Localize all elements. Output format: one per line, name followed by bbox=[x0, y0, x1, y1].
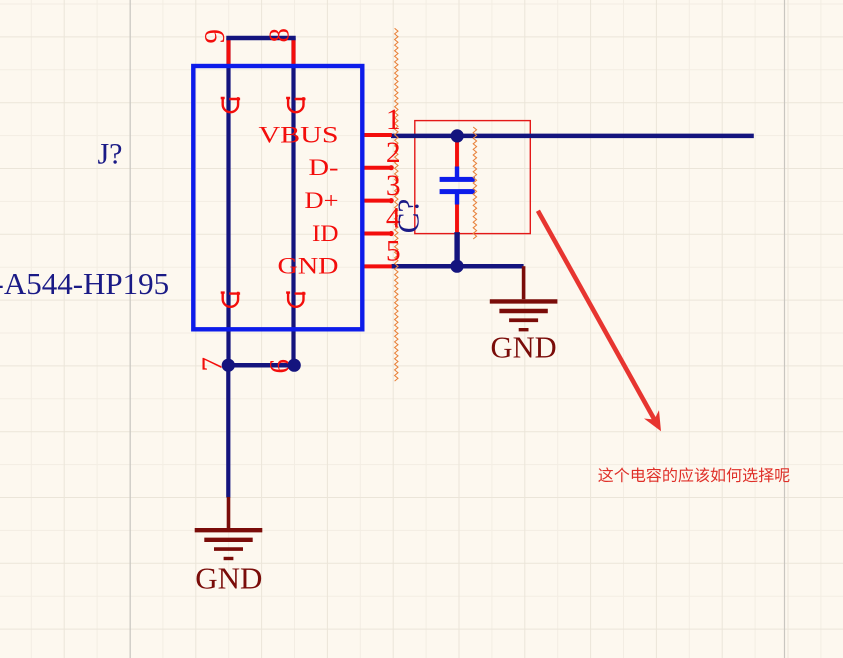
svg-text:GND: GND bbox=[195, 561, 262, 596]
svg-text:ID: ID bbox=[312, 221, 339, 247]
svg-text:GND: GND bbox=[491, 331, 557, 365]
svg-text:9: 9 bbox=[199, 29, 231, 44]
svg-text:-A544-HP195: -A544-HP195 bbox=[0, 266, 169, 301]
svg-text:1: 1 bbox=[386, 104, 401, 136]
svg-text:J?: J? bbox=[98, 137, 123, 170]
svg-text:D+: D+ bbox=[305, 188, 339, 214]
svg-text:8: 8 bbox=[264, 28, 296, 43]
svg-text:3: 3 bbox=[386, 170, 401, 202]
svg-text:GND: GND bbox=[278, 254, 339, 280]
svg-text:2: 2 bbox=[386, 137, 401, 169]
svg-text:VBUS: VBUS bbox=[259, 122, 339, 148]
svg-text:D-: D- bbox=[309, 155, 339, 181]
svg-text:5: 5 bbox=[386, 236, 401, 268]
svg-text:C?: C? bbox=[391, 199, 426, 233]
